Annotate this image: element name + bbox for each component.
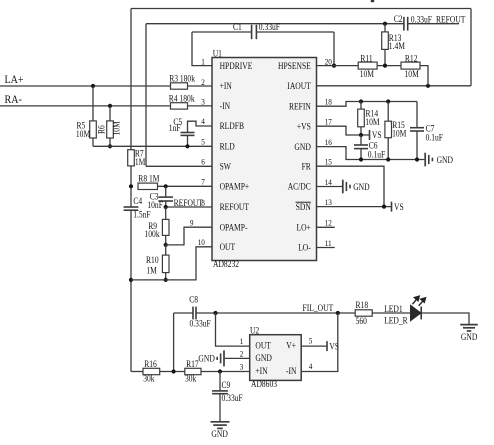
svg-text:U2: U2	[250, 326, 259, 336]
wire pin 15 FR to SDN node	[317, 166, 385, 206]
svg-text:1.5nF: 1.5nF	[133, 209, 150, 219]
wire C1 loop top	[192, 31, 252, 33]
node junction C7 bottom	[415, 157, 419, 161]
power tap VS at pin 13	[391, 202, 393, 212]
node junction R15 bottom	[386, 157, 390, 161]
svg-text:30k: 30k	[185, 373, 197, 383]
svg-text:FIL_OUT: FIL_OUT	[303, 303, 334, 313]
svg-text:U1: U1	[213, 48, 222, 58]
svg-text:C8: C8	[189, 295, 198, 305]
svg-text:RA-: RA-	[5, 92, 22, 106]
svg-text:11: 11	[325, 238, 332, 248]
svg-text:SW: SW	[220, 162, 232, 172]
wire R8 to pin 7	[158, 185, 213, 187]
capacitor C6 0.1uF	[360, 135, 362, 145]
svg-text:0.33uF: 0.33uF	[190, 318, 211, 328]
wire pin 12 LO+ stub	[317, 226, 335, 228]
svg-text:R17: R17	[186, 359, 199, 369]
svg-text:16: 16	[325, 137, 333, 147]
svg-text:C9: C9	[222, 380, 231, 390]
node junction R5 top on LA+ line	[91, 84, 95, 88]
svg-text:HPDRIVE: HPDRIVE	[220, 61, 253, 71]
wire left vertical below C4	[130, 210, 132, 371]
svg-text:3: 3	[201, 97, 205, 107]
wire +IN line to R16 from left vertical	[131, 371, 143, 373]
node junction C3 top on pin 7 line	[164, 184, 168, 188]
node junction C3 bottom R9 top	[164, 205, 168, 209]
node junction C6 bottom	[359, 157, 363, 161]
node junction R12 drop on pin 19 line	[426, 84, 430, 88]
svg-text:IAOUT: IAOUT	[287, 81, 311, 91]
svg-text:R4 180k: R4 180k	[169, 93, 195, 103]
op-amp IC U2 AD8603 body	[250, 335, 302, 381]
wire RA- line	[0, 105, 171, 107]
node junction C1 right on pin 20 line	[332, 64, 336, 68]
svg-text:1: 1	[240, 336, 244, 346]
node junction OUT line on left vertical	[129, 278, 133, 282]
svg-text:OPAMP+: OPAMP+	[220, 182, 250, 192]
resistor R6 10M rotated labels	[109, 106, 111, 121]
ground symbol at LED	[460, 324, 478, 326]
node junction R13 top	[383, 22, 387, 26]
wire R12 to pin 19 line	[420, 66, 428, 86]
wire FIL_OUT line right of C8	[196, 312, 355, 314]
wire C1 left drop to HPDRIVE	[191, 32, 193, 66]
svg-text:OPAMP-: OPAMP-	[220, 222, 248, 232]
capacitor C2 0.33uF	[403, 17, 405, 31]
svg-text:RLDFB: RLDFB	[220, 121, 244, 131]
wire SW vertical	[145, 24, 147, 167]
resistor R17 30k	[185, 368, 201, 374]
svg-text:0.1uF: 0.1uF	[368, 149, 385, 159]
LED emission arrows	[412, 296, 425, 306]
wire outer feedback loop right edge	[470, 9, 472, 86]
svg-text:0.33uF: 0.33uF	[259, 22, 280, 32]
node junction R14 bottom VS node	[359, 133, 363, 137]
svg-text:5: 5	[201, 137, 205, 147]
svg-text:0.33uF: 0.33uF	[411, 14, 432, 24]
svg-text:1nF: 1nF	[169, 123, 181, 133]
svg-text:10: 10	[198, 237, 205, 247]
ground symbol below C9	[211, 421, 230, 423]
svg-text:R16: R16	[144, 359, 157, 369]
svg-text:10M: 10M	[392, 129, 406, 139]
wire left vertical net upper segment	[130, 9, 132, 150]
svg-text:9: 9	[190, 218, 194, 228]
resistor R7 1M	[128, 150, 135, 166]
wire R16 to R17	[160, 371, 185, 373]
svg-text:GND: GND	[198, 353, 215, 363]
svg-text:REFOUT: REFOUT	[220, 202, 250, 212]
svg-text:14: 14	[325, 177, 333, 187]
capacitor C3 10nF	[165, 186, 167, 197]
svg-text:17: 17	[325, 117, 333, 127]
svg-text:18: 18	[325, 97, 332, 107]
svg-text:GND: GND	[294, 142, 311, 152]
svg-text:5: 5	[309, 336, 313, 346]
power tap VS at pin 17	[369, 130, 371, 140]
wire LA+ line	[0, 85, 171, 87]
svg-text:REFOUT: REFOUT	[174, 198, 204, 208]
wire U2 -IN pin 4 feedback	[301, 313, 338, 372]
svg-text:4: 4	[309, 361, 313, 371]
resistor R10 1M	[165, 245, 167, 255]
svg-text:R10: R10	[146, 255, 159, 265]
svg-text:20: 20	[325, 56, 332, 66]
resistor R12 10M	[401, 62, 420, 69]
svg-text:AD8232: AD8232	[213, 259, 239, 269]
capacitor C4 1.5nF in left vertical	[124, 206, 139, 208]
svg-text:7: 7	[201, 177, 205, 187]
wire REFOUT top line from SW vertical to C2	[146, 23, 404, 25]
resistor R14 10M	[360, 102, 362, 110]
wire pin 16 GND line	[317, 147, 425, 160]
svg-text:REFIN: REFIN	[289, 101, 311, 111]
svg-text:LA+: LA+	[5, 72, 24, 86]
resistor R8 1M on pin 7 OPAMP+	[138, 183, 158, 189]
node junction R10 bottom on OUT line	[164, 278, 168, 282]
node junction C9 top on +IN line	[218, 369, 222, 373]
capacitor C8 0.33uF	[192, 307, 194, 320]
wire pin 9 OPAMP- jog	[166, 227, 212, 245]
svg-text:AD8603: AD8603	[251, 379, 277, 389]
svg-text:VS: VS	[394, 202, 404, 212]
svg-text:100k: 100k	[145, 229, 161, 239]
svg-text:4: 4	[201, 116, 205, 126]
wire pin 13 SDN to VS tap	[317, 206, 392, 208]
capacitor C7 0.1uF	[416, 102, 418, 128]
wire R3 to pin 2 +IN	[188, 85, 213, 87]
capacitor C5 1nF branch from pin 4 RLDFB	[188, 121, 213, 132]
node junction U2 OUT drop	[213, 311, 217, 315]
wire pin 14 AC/DC to ground	[317, 186, 343, 188]
wire U2 V+ pin 5 to VS tap	[301, 345, 327, 347]
svg-text:8: 8	[201, 197, 205, 207]
svg-text:560: 560	[356, 316, 368, 326]
svg-text:3: 3	[240, 362, 244, 372]
wire pin1 HPDRIVE stub	[191, 65, 212, 67]
svg-text:C4: C4	[133, 196, 142, 206]
node junction R6 top on RA- line	[108, 104, 112, 108]
capacitor C9 0.33uF	[219, 372, 221, 391]
node junction R8 tap on left vertical	[129, 184, 133, 188]
resistor R4 180k	[171, 103, 188, 109]
svg-text:+VS: +VS	[297, 121, 311, 131]
wire outer feedback loop top edge	[131, 8, 471, 10]
svg-text:R3 180k: R3 180k	[169, 74, 195, 84]
resistor R18 560	[355, 310, 372, 316]
svg-text:HPSENSE: HPSENSE	[278, 61, 311, 71]
svg-text:GND: GND	[437, 155, 454, 165]
svg-text:+IN: +IN	[255, 366, 268, 376]
node junction U2 -IN drop	[336, 311, 340, 315]
node junction FR drop on SDN line	[382, 205, 386, 209]
svg-text:1.4M: 1.4M	[389, 41, 405, 51]
svg-text:R11: R11	[360, 54, 372, 64]
ground symbol right of C7	[424, 153, 426, 167]
svg-text:-IN: -IN	[220, 101, 231, 111]
node junction R14 top	[359, 99, 363, 103]
wire pin 17 +VS to VS tap	[317, 126, 370, 135]
wire pin 8 REFOUT line	[166, 206, 212, 208]
resistor R5 10M	[92, 86, 94, 121]
svg-text:10M: 10M	[405, 69, 419, 79]
ground symbol at U2 pin 2	[223, 350, 225, 366]
wire R18 to LED	[372, 312, 410, 314]
svg-text:OUT: OUT	[255, 341, 271, 351]
svg-text:OUT: OUT	[220, 242, 236, 252]
svg-text:1M: 1M	[146, 265, 157, 275]
svg-text:6: 6	[201, 157, 205, 167]
svg-text:LED1: LED1	[384, 304, 403, 314]
svg-text:GND: GND	[255, 353, 272, 363]
cropped mark at top edge	[371, 0, 374, 2]
wire RLD line pin 5	[93, 145, 212, 147]
svg-text:GND: GND	[211, 429, 228, 439]
wire FIL_OUT line left of C8	[174, 312, 193, 314]
power tap VS at U2 pin 5	[326, 341, 328, 351]
wire pin 10 OUT line	[131, 247, 212, 280]
svg-text:R8 1M: R8 1M	[138, 173, 159, 183]
svg-text:FR: FR	[302, 161, 311, 171]
wire left vertical between R7 and C4	[130, 166, 132, 207]
svg-text:-IN: -IN	[286, 366, 297, 376]
wire U2 GND pin 2	[225, 357, 250, 359]
svg-text:2: 2	[201, 77, 205, 87]
svg-text:15: 15	[325, 157, 332, 167]
svg-text:1: 1	[201, 56, 205, 66]
svg-text:10M: 10M	[76, 129, 90, 139]
svg-text:C2: C2	[394, 14, 403, 24]
svg-text:C1: C1	[233, 22, 242, 32]
svg-text:1M: 1M	[135, 157, 146, 167]
svg-text:12: 12	[325, 218, 332, 228]
wire pin 11 LO- stub	[317, 247, 335, 249]
resistor R11 10M	[358, 62, 377, 69]
svg-text:SDN: SDN	[296, 202, 312, 212]
svg-text:13: 13	[325, 197, 332, 207]
svg-text:R18: R18	[356, 300, 369, 310]
svg-text:GND: GND	[353, 182, 370, 192]
wire REFOUT line right of C2	[408, 23, 459, 25]
svg-text:0.33uF: 0.33uF	[222, 393, 243, 403]
wire R4 to pin 3 -IN	[188, 105, 213, 107]
ground symbol at AC/DC	[342, 180, 344, 194]
wire C1 right drop to HPSENSE	[333, 32, 335, 66]
svg-text:LO-: LO-	[298, 243, 311, 253]
svg-text:0.1uF: 0.1uF	[426, 133, 443, 143]
node junction R13 bottom on pin 20 line	[383, 64, 387, 68]
svg-text:GND: GND	[461, 332, 478, 342]
svg-text:RLD: RLD	[220, 142, 236, 152]
svg-text:REFOUT: REFOUT	[436, 15, 466, 25]
svg-text:LO+: LO+	[297, 223, 311, 233]
svg-text:30k: 30k	[143, 373, 155, 383]
wire pin 18 REFIN line	[317, 102, 418, 107]
resistor R15 10M	[387, 102, 389, 122]
resistor R13 1.4M	[384, 24, 386, 32]
svg-text:+IN: +IN	[220, 81, 233, 91]
svg-text:R6: R6	[97, 125, 107, 134]
node junction C5 bottom on RLD line	[185, 144, 189, 148]
svg-text:VS: VS	[372, 130, 382, 140]
resistor R9 100k	[165, 207, 167, 219]
svg-text:AC/DC: AC/DC	[288, 182, 311, 192]
wire pin 6 SW line	[146, 165, 212, 167]
svg-text:LED_R: LED_R	[384, 315, 408, 325]
svg-text:R12: R12	[405, 54, 418, 64]
resistor R16 30k	[143, 368, 160, 374]
node junction R9 bottom	[164, 243, 168, 247]
wire U2 OUT pin 1	[216, 313, 250, 346]
wire pin 20 HPSENSE line	[317, 65, 359, 67]
capacitor C1 0.33uF	[251, 25, 253, 39]
wire LED to ground	[421, 313, 469, 325]
svg-text:10M: 10M	[112, 121, 122, 135]
node junction C8 drop on +IN line	[172, 369, 176, 373]
op-amp IC U1 AD8232 body	[212, 58, 317, 261]
node junction R6 bottom on RLD line	[108, 144, 112, 148]
svg-text:10M: 10M	[365, 117, 379, 127]
wire R17 to U2 +IN pin 3	[201, 371, 250, 373]
svg-text:V+: V+	[286, 341, 296, 351]
svg-text:2: 2	[240, 348, 244, 358]
node junction R15 top	[386, 99, 390, 103]
svg-text:10M: 10M	[360, 69, 374, 79]
resistor R3 180k	[171, 83, 188, 89]
wire IAOUT pin 19 line	[317, 85, 472, 87]
wire C8 left drop to +IN line	[173, 313, 175, 372]
